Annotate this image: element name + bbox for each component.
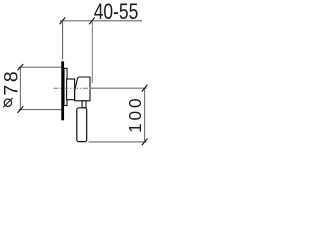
tick top of dia78 bbox=[18, 64, 24, 70]
label dia symbol slash bbox=[3, 98, 12, 107]
lever grip bbox=[77, 108, 87, 142]
valve body bbox=[67, 79, 75, 100]
dimension line dia 78 bbox=[19, 67, 21, 109]
svg-text:40-55: 40-55 bbox=[94, 0, 139, 24]
label dia symbol circle bbox=[4, 99, 11, 106]
extension line at handle front bbox=[91, 22, 93, 83]
extension line plate top (dia 78) bbox=[19, 66, 62, 68]
extension line lever bottom bbox=[89, 141, 147, 143]
tick left of 40-55 bbox=[60, 17, 66, 24]
svg-text:100: 100 bbox=[125, 96, 145, 133]
sleeve bbox=[64, 68, 67, 105]
extension line center right bbox=[91, 87, 147, 89]
svg-text:78: 78 bbox=[0, 69, 22, 96]
wall / plate bar bbox=[61, 61, 64, 120]
tick right of 40-55 bbox=[89, 17, 95, 24]
tick top of 100 bbox=[142, 85, 148, 92]
lever neck bbox=[82, 101, 86, 108]
tick bottom of 100 bbox=[142, 139, 148, 146]
handle knob bbox=[75, 77, 90, 101]
centerline bbox=[54, 87, 92, 89]
dimension line 40-55 bbox=[60, 20, 142, 22]
dimension line 100 bbox=[144, 88, 146, 142]
extension line plate bottom (dia 78) bbox=[19, 109, 62, 111]
tick bottom of dia78 bbox=[18, 106, 24, 112]
extension line at plate front bbox=[62, 22, 64, 60]
